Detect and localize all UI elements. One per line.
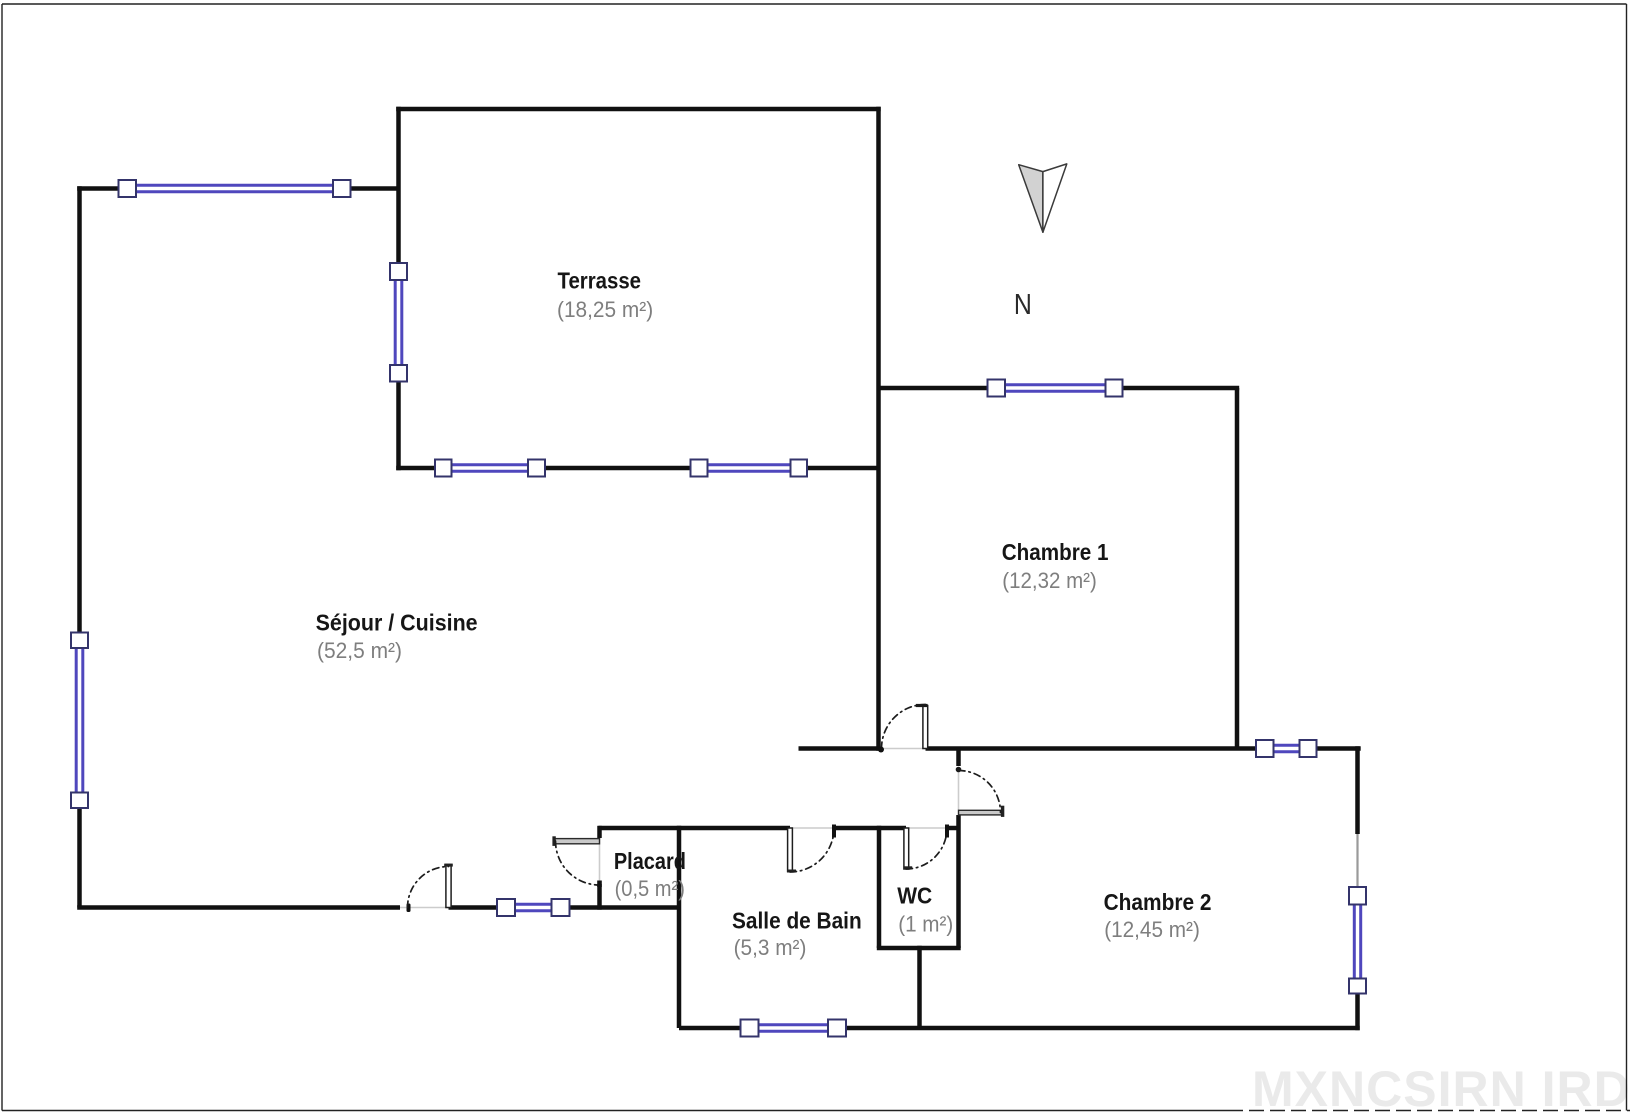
wall: divider below WC	[917, 946, 922, 1028]
door wc: jamb tick	[945, 825, 949, 838]
svg-text:(5,3 m²): (5,3 m²)	[734, 935, 807, 960]
wall: WC bottom	[877, 946, 961, 951]
window W5 glazing	[1005, 385, 1106, 391]
door placard: leaf left cap	[552, 836, 555, 846]
window W3 glazing	[452, 465, 529, 471]
opening thresholds	[400, 749, 959, 908]
window W6 glazing	[76, 648, 83, 793]
door salle de bain: jamb tick	[832, 825, 836, 838]
threshold placard door	[599, 838, 601, 884]
window W7 caps	[497, 899, 515, 916]
window W8 caps	[1256, 740, 1274, 757]
door chambre1: jamb nub	[878, 747, 884, 753]
door salle de bain: swing arc	[790, 828, 834, 872]
wall: building bottom	[679, 1026, 742, 1031]
door chambre2: swing arc	[959, 771, 1001, 813]
door chambre2: hinge circle	[956, 767, 962, 773]
door séjour: leaf	[446, 865, 451, 908]
wall: terrasse left	[396, 107, 401, 264]
wall: chambre1 top	[879, 386, 989, 391]
svg-text:MXNCSIRN IRD: MXNCSIRN IRD	[1252, 1061, 1630, 1114]
window W9 glazing	[1354, 905, 1360, 979]
door chambre2: leaf right cap	[1001, 806, 1004, 817]
north arrow	[1019, 164, 1067, 232]
window W5 caps	[988, 380, 1006, 397]
window W4 caps	[691, 460, 708, 477]
svg-text:(12,32 m²): (12,32 m²)	[1002, 568, 1097, 593]
wall: placard right / salle de bain left	[677, 826, 682, 1028]
door chambre2: leaf	[959, 810, 1004, 815]
door séjour: jamb nub	[407, 904, 411, 913]
svg-text:(52,5 m²): (52,5 m²)	[317, 638, 402, 663]
wall: séjour bottom	[77, 905, 400, 910]
svg-text:(18,25 m²): (18,25 m²)	[557, 297, 653, 322]
svg-text:Terrasse: Terrasse	[558, 267, 642, 293]
svg-text:Chambre 2: Chambre 2	[1104, 889, 1212, 915]
wall: chambre2 left	[956, 749, 961, 767]
wall: hallway top / chambre2 top	[799, 746, 880, 751]
window W1 caps	[71, 180, 1366, 1037]
page frame left	[1, 4, 3, 1111]
door salle de bain: leaf	[788, 828, 793, 872]
window W6 caps	[71, 633, 88, 649]
svg-text:Séjour / Cuisine: Séjour / Cuisine	[316, 610, 478, 636]
svg-text:(0,5 m²): (0,5 m²)	[615, 876, 685, 901]
wall: séjour left	[77, 186, 82, 633]
threshold wc door	[906, 827, 947, 829]
wall: WC left	[877, 826, 882, 948]
window W2 glazing	[395, 280, 402, 366]
wall: divider terrasse right / chambre1 left	[876, 107, 881, 751]
door chambre1: swing arc	[882, 705, 926, 749]
door placard: leaf	[554, 839, 600, 844]
window W1 glazing	[76, 185, 1361, 1031]
window W4 glazing	[708, 465, 791, 471]
threshold salle de bain door	[790, 827, 834, 829]
door salle de bain: leaf bottom cap	[787, 870, 796, 873]
page frame right	[1626, 4, 1628, 1111]
window W10 caps	[741, 1020, 759, 1037]
svg-text:Salle de Bain: Salle de Bain	[732, 907, 862, 933]
window W2 caps	[390, 263, 407, 280]
door chambre1: leaf top cap	[916, 704, 928, 707]
threshold séjour door	[400, 907, 449, 909]
door placard: swing arc	[556, 841, 600, 885]
wall: top-left horizontal	[77, 186, 120, 191]
wall: hallway bottom	[599, 826, 791, 831]
door chambre1: leaf	[923, 706, 928, 749]
door séjour: leaf top cap	[444, 864, 453, 867]
wall: placard left	[597, 826, 602, 838]
door wc: leaf	[904, 828, 909, 869]
page frame bottom	[2, 1110, 1228, 1112]
wall: chambre1 right	[1235, 388, 1240, 749]
svg-text:Chambre 1: Chambre 1	[1002, 539, 1109, 565]
svg-text:(1 m²): (1 m²)	[898, 912, 953, 937]
wall: terrasse bottom	[396, 466, 436, 471]
threshold chambre2 door	[958, 770, 960, 810]
window W3 caps	[435, 460, 452, 477]
door wc: swing arc	[906, 828, 947, 869]
door wc: leaf bottom cap	[903, 866, 912, 869]
window W10 glazing	[759, 1025, 829, 1031]
svg-text:WC: WC	[897, 883, 932, 909]
wall: chambre2 right	[1355, 746, 1360, 834]
svg-text:Placard: Placard	[614, 848, 686, 874]
door placard: closed-end tick	[597, 881, 602, 888]
window W9 caps	[1349, 887, 1366, 905]
svg-text:N: N	[1014, 289, 1032, 321]
opening: chambre2 right wall light section	[1356, 834, 1358, 887]
threshold chambre1 door	[879, 748, 926, 750]
window W8 glazing	[1274, 745, 1300, 751]
door séjour: swing arc	[408, 867, 449, 908]
svg-text:(12,45 m²): (12,45 m²)	[1104, 917, 1200, 942]
window W7 glazing	[515, 904, 552, 910]
wall: terrasse top	[396, 107, 881, 112]
